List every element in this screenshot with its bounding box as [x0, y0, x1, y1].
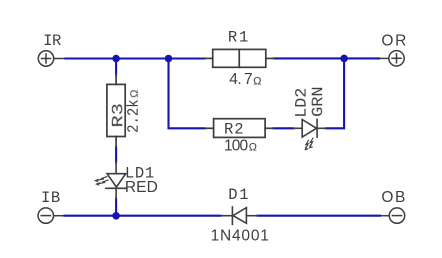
wire top rail R1 to OR [274, 57, 379, 59]
wire LD2 up to node C [326, 58, 344, 128]
svg-text:RED: RED [125, 179, 158, 196]
svg-text:R1: R1 [228, 28, 250, 46]
wire bottom rail IB to D1 [65, 215, 221, 217]
LED LD1 [106, 162, 127, 199]
resistor R2 [205, 119, 273, 138]
wire R2 to LD2 [273, 127, 293, 129]
svg-text:1N4001: 1N4001 [211, 228, 270, 245]
wire R2 branch: node B down and right to R2 [169, 59, 205, 129]
svg-text:IB: IB [41, 189, 61, 207]
diode D1 [221, 207, 258, 224]
svg-text:R2: R2 [224, 120, 245, 138]
wire R3 branch down from node A [115, 59, 117, 75]
terminal IR [38, 51, 65, 66]
resistor R1 [205, 49, 274, 67]
svg-text:LD2: LD2 [293, 88, 311, 118]
svg-text:OR: OR [381, 33, 408, 50]
junction node A (top, R3 branch) [112, 55, 120, 63]
LED LD2 [294, 120, 327, 138]
svg-text:IR: IR [43, 32, 61, 50]
junction node D (bottom, LD1) [112, 212, 120, 220]
terminal OB [380, 208, 405, 223]
terminal IB [38, 208, 65, 223]
terminal OR [379, 51, 404, 66]
svg-text:4.7Ω: 4.7Ω [229, 71, 261, 88]
svg-text:D1: D1 [228, 186, 250, 204]
LD1 light arrows [95, 176, 108, 185]
wire bottom rail D1 to OB [258, 215, 381, 217]
LD2 light arrows [305, 138, 313, 150]
wire R3 to LD1 [115, 147, 117, 162]
wire top rail IR to R1 [65, 57, 204, 59]
svg-text:OB: OB [381, 189, 407, 206]
svg-text:100Ω: 100Ω [224, 137, 257, 154]
wire LD1 to node D [115, 199, 117, 216]
junction node C (top right) [340, 55, 348, 63]
junction node B (top, R2 branch) [165, 55, 173, 63]
resistor R3 [107, 74, 125, 147]
svg-text:GRN: GRN [309, 86, 327, 117]
svg-text:2.2k: 2.2k [125, 99, 143, 133]
svg-text:Ω: Ω [129, 90, 141, 98]
